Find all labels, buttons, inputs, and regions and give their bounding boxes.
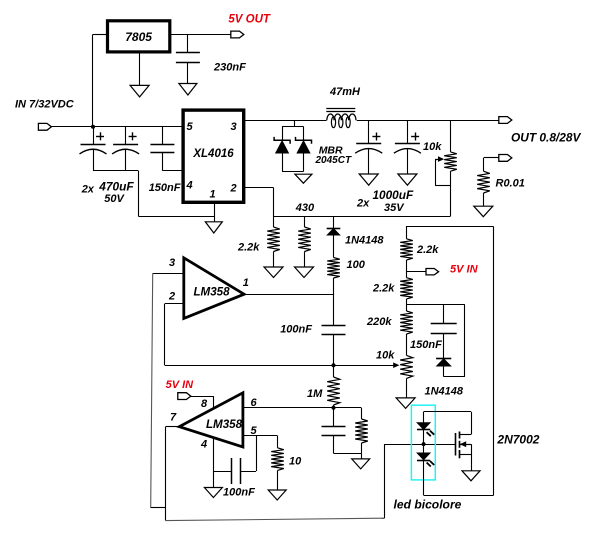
label IN 7/32VDC [15,99,75,111]
resistor 10 [271,436,284,491]
diode D1 MBR2045CT half [274,137,290,153]
svg-text:430: 430 [295,202,315,214]
wire [450,171,452,216]
svg-text:LM358: LM358 [206,418,243,431]
wire [93,35,108,127]
wire [459,444,471,471]
diode D2 MBR2045CT half [296,137,312,153]
svg-text:100: 100 [347,259,366,271]
ground [359,174,378,185]
regulator U2 7805 [108,21,170,52]
svg-text:10k: 10k [376,350,395,362]
pin 1 [210,189,216,201]
ground [462,471,480,481]
svg-text:R0.01: R0.01 [496,178,525,190]
svg-text:220k: 220k [366,316,392,328]
wire [244,294,333,296]
wire [93,171,214,217]
pin 3 [169,257,175,269]
pin 1 [243,277,249,289]
pin 2 [230,183,237,195]
svg-text:1M: 1M [307,388,323,400]
ground [179,84,197,96]
capacitor C2 470uF [112,127,139,171]
capacitor 100nF [322,295,346,366]
wire [165,304,184,366]
svg-text:47mH: 47mH [329,86,361,98]
node 5V IN connector [426,269,439,275]
capacitor C7 1000uF [394,120,421,174]
pin 5 [187,121,194,133]
wire [191,396,214,408]
led bicolore outline [411,405,435,480]
svg-text:1: 1 [243,277,249,289]
svg-text:5V IN: 5V IN [450,264,479,276]
wire [244,120,327,122]
label 2.2k [372,283,395,295]
svg-text:230nF: 230nF [213,62,246,74]
ground [474,206,493,217]
pin 6 [251,397,258,409]
wire [334,453,362,459]
label 1M [307,388,323,400]
resistor R0.01 [477,171,490,193]
wire [423,430,425,453]
svg-text:IN 7/32VDC: IN 7/32VDC [15,99,75,111]
wire [213,438,215,472]
wire [459,412,471,435]
svg-text:8: 8 [201,398,208,410]
label 2x 1000uF 35V [356,188,414,214]
svg-text:2.2k: 2.2k [237,242,260,254]
wire [282,120,303,140]
svg-text:7805: 7805 [125,30,152,44]
label 100 [347,259,366,271]
pin 8 [201,398,208,410]
svg-text:10k: 10k [423,141,442,153]
ground [204,488,222,498]
pin 7 [170,412,177,424]
capacitor 230nF [176,53,200,84]
svg-text:10: 10 [289,456,302,468]
svg-text:1: 1 [210,189,216,201]
capacitor C6 1000uF [355,120,382,174]
svg-text:1N4148: 1N4148 [425,386,464,398]
wire [166,427,180,521]
node 5V IN connector [178,393,191,400]
potentiometer 10k [400,355,413,378]
junction [422,442,426,446]
resistor 2.2k [400,272,413,305]
pin 4 [200,439,207,451]
wire [406,305,465,377]
svg-text:50V: 50V [104,193,125,205]
wire [435,159,450,186]
label led bicolore [394,498,462,512]
wire [213,471,215,488]
transistor Q1 2N7002 gate [455,433,457,456]
label 47mH [329,86,361,98]
node R0.01 connector [499,155,512,162]
svg-text:5: 5 [187,121,194,133]
transistor Q1 body arrow [459,441,471,447]
svg-text:5V IN: 5V IN [166,379,195,391]
resistor 2.2k [400,227,413,272]
svg-text:1000uF: 1000uF [373,188,414,202]
wire [406,271,426,273]
svg-text:2045CT: 2045CT [315,155,352,166]
svg-text:2.2k: 2.2k [416,244,439,256]
label 220k [366,316,392,328]
svg-text:100nF: 100nF [223,487,255,499]
op-amp U3B LM358 [179,393,243,447]
junction [91,125,95,129]
svg-text:2x: 2x [356,198,370,210]
label 5V OUT [228,14,271,26]
wire [165,365,394,367]
svg-text:2x: 2x [81,184,95,196]
svg-text:6: 6 [251,397,258,409]
wire [243,436,277,472]
wire [51,126,183,128]
wire [274,216,451,218]
resistor 1M [327,365,340,408]
svg-text:led bicolore: led bicolore [394,498,462,512]
label 230nF [213,62,246,74]
ground [396,398,415,409]
inductor L1 47mH [326,109,356,128]
resistor [355,408,368,454]
ground [398,174,417,185]
op-amp U3A LM358 [184,258,244,319]
capacitor 150nF [431,305,457,359]
label 100nF [223,487,255,499]
label 1N4148 [345,235,384,247]
transistor Q1 channel [459,432,461,459]
label OUT 0.8/28V [511,131,581,145]
svg-text:2.2k: 2.2k [372,283,395,295]
node OUT connector [499,117,512,124]
pin 3 [231,121,237,133]
label 2N7002 [496,433,539,447]
IC U1 XL4016 [183,110,244,202]
label 1N4148 [425,386,464,398]
svg-text:2: 2 [168,291,175,303]
label 2x 470uF 50V [81,179,135,205]
wire [166,444,385,520]
label 5V IN [166,379,195,391]
node 5V OUT connector [231,31,244,38]
ground [264,267,283,278]
svg-text:1N4148: 1N4148 [345,235,384,247]
wire [357,120,499,122]
wire [187,35,189,53]
ground [268,490,286,500]
svg-text:XL4016: XL4016 [192,148,234,160]
wire [282,153,303,172]
wire [384,444,455,446]
diode D4 1N4148 [436,359,465,377]
svg-text:150nF: 150nF [410,339,442,351]
svg-text:5V OUT: 5V OUT [228,14,271,26]
capacitor 100nF [213,458,256,484]
wiper arrow [435,156,444,162]
wire [424,412,472,423]
label 2.2k [416,244,439,256]
wire [406,227,494,496]
node IN connector [38,123,51,130]
LED D5 [417,423,434,437]
svg-text:2N7002: 2N7002 [496,433,539,447]
wiper arrow [393,362,399,368]
resistor 430 [298,216,311,267]
resistor 100 [327,235,340,294]
wire [406,378,408,398]
wire [483,193,485,206]
svg-text:LM358: LM358 [193,286,230,299]
wire [170,34,231,36]
wire [214,202,216,222]
capacitor C1 470uF [80,127,107,171]
svg-text:4: 4 [186,180,193,192]
pin 4 [186,180,193,192]
capacitor [322,408,346,454]
ground [352,459,370,469]
diode D3 1N4148 [327,216,341,235]
wire [139,52,141,86]
svg-text:150nF: 150nF [149,182,181,194]
ground [205,222,222,233]
ground [295,267,314,278]
svg-text:OUT 0.8/28V: OUT 0.8/28V [511,131,581,145]
label 10k [423,141,442,153]
svg-text:2: 2 [230,183,237,195]
label 150nF [149,182,181,194]
resistor 220k [400,305,413,356]
wire [151,273,184,508]
wire [450,120,452,152]
label MBR 2045CT [315,145,352,167]
label 5V IN [450,264,479,276]
svg-text:4: 4 [200,439,207,451]
wire [423,460,425,495]
label 10 [289,456,302,468]
junction [332,406,336,410]
svg-text:7: 7 [170,412,177,424]
label R0.01 [496,178,525,190]
junction [332,363,336,367]
svg-text:3: 3 [231,121,237,133]
label 2.2k [237,242,260,254]
pin 5 [251,425,258,437]
label 100nF [280,324,312,336]
label 150nF [410,339,442,351]
capacitor C5 150nF [150,127,183,171]
pin 2 [168,291,175,303]
wire [484,158,499,172]
ground [130,85,149,97]
potentiometer 10k [444,152,457,171]
resistor 2.2k [267,216,280,267]
svg-text:35V: 35V [384,202,405,214]
ground [295,174,312,183]
LED D6 [417,453,434,467]
svg-text:470uF: 470uF [98,179,134,193]
wire [244,188,274,217]
label 10k [376,350,395,362]
label 430 [295,202,315,214]
svg-text:100nF: 100nF [280,324,312,336]
svg-text:3: 3 [169,257,175,269]
wire [243,407,361,409]
